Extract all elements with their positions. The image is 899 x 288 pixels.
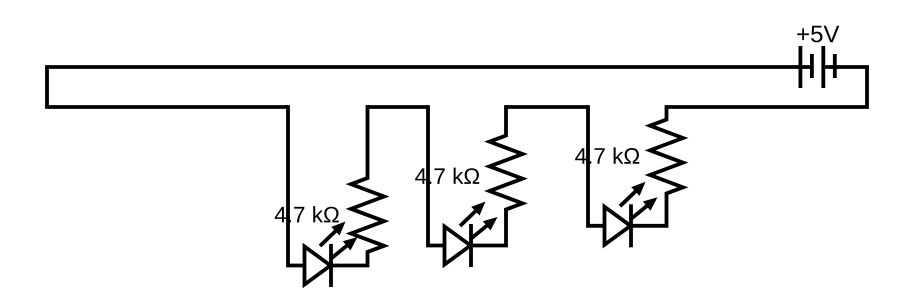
wire: bottom bus segment C (R2 top to branch 3 leg) bbox=[506, 105, 588, 109]
wire: branch 3 anode leg down from bus and lead to LED D3 bbox=[588, 105, 606, 226]
LED D3 (triangle anode left, cathode bar right) bbox=[605, 204, 632, 247]
LED D2 emission arrows bbox=[460, 202, 498, 240]
wire: bottom bus segment A (left corner to branch 1 anode leg) bbox=[45, 105, 288, 109]
LED D3 emission arrows bbox=[620, 182, 658, 220]
label: R3 value 4.7 kΩ bbox=[575, 147, 639, 163]
label: +5V supply bbox=[797, 26, 839, 43]
wire: bottom bus segment D (R3 top to right vertical) and right vertical up to battery negative bbox=[667, 67, 868, 107]
resistor R2 4.7 kΩ (cathode wire up through zigzag to bus) bbox=[472, 105, 523, 245]
wire: +5V top bus from battery positive plate to top-left corner and left vertical down to bottom bus bbox=[47, 67, 812, 107]
LED D2 (triangle anode left, cathode bar right) bbox=[445, 224, 472, 267]
battery B1: two-cell +5V battery bbox=[800, 46, 834, 88]
LED D1 (triangle anode left, cathode bar right) bbox=[305, 244, 332, 287]
wire: branch 2 anode leg down from bus and lead to LED D2 bbox=[428, 105, 446, 245]
label: R1 value 4.7 kΩ bbox=[275, 206, 339, 222]
LED D1 emission arrows bbox=[320, 222, 358, 260]
resistor R3 4.7 kΩ (cathode wire up through zigzag to bus) bbox=[632, 105, 684, 226]
wire: branch 1 anode leg down from bus and lead to LED D1 bbox=[288, 105, 306, 265]
label: R2 value 4.7 kΩ bbox=[415, 168, 479, 184]
resistor R1 4.7 kΩ (cathode wire up through zigzag to bus) bbox=[332, 105, 385, 265]
wire: bottom bus segment B (R1 top to branch 2 leg) bbox=[368, 105, 429, 109]
